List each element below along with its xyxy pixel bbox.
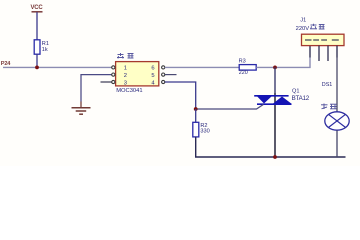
label deng-pao (bulb) [321, 104, 337, 110]
svg-text:220V: 220V [296, 26, 310, 32]
svg-text:MOC3041: MOC3041 [116, 88, 142, 94]
junction dot MT2 node [273, 66, 277, 70]
wire pin4 to gate node [165, 82, 196, 109]
junction dot gate node [194, 107, 198, 111]
wire MT2 vertical [274, 67, 276, 93]
connector J1 body [300, 18, 344, 46]
wire gate [196, 104, 264, 109]
wire VCC to R1 [36, 12, 38, 40]
svg-text:2: 2 [124, 73, 127, 79]
J1 pin 3 stub [327, 46, 329, 61]
svg-text:1: 1 [124, 66, 127, 72]
wire gate node to R2 [195, 109, 197, 122]
pin circles U1 [112, 66, 165, 84]
svg-text:DS1: DS1 [322, 82, 333, 88]
svg-text:220: 220 [239, 70, 248, 76]
wire lamp to bottom rail [336, 130, 338, 157]
resistor R2 [193, 122, 210, 137]
wire J1 pin4 to lamp [336, 46, 338, 58]
svg-text:5: 5 [151, 73, 154, 79]
svg-text:3: 3 [124, 80, 127, 86]
triac Q1 [254, 89, 310, 105]
junction dot bottom rail [273, 155, 277, 159]
svg-text:R1: R1 [42, 41, 49, 47]
svg-text:1k: 1k [42, 47, 48, 53]
svg-text:J1: J1 [300, 18, 306, 24]
wire P24 to pin1 [3, 66, 112, 68]
lamp DS1 [322, 82, 349, 130]
J1 pin 2 stub [318, 46, 320, 61]
wire R2 to bottom rail [196, 137, 346, 157]
svg-text:P24: P24 [1, 61, 11, 67]
wire pin3 stub [101, 81, 112, 83]
wire pin5 stub [165, 74, 177, 76]
resistor R1 [34, 40, 49, 54]
label 220V AC [296, 24, 325, 32]
ground [72, 108, 91, 115]
power VCC [31, 5, 44, 12]
svg-text:R3: R3 [239, 58, 246, 64]
svg-text:BTA12: BTA12 [292, 95, 310, 102]
wire R1 to node [36, 54, 38, 67]
wire pin6 to R3 [165, 66, 239, 68]
svg-text:VCC: VCC [31, 5, 44, 11]
optocoupler U1 MOC3041 body [116, 62, 159, 87]
label guang-ou (optocoupler) above U1 [117, 53, 134, 59]
wire R3 to J1 [256, 58, 310, 68]
svg-text:6: 6 [151, 66, 154, 72]
svg-text:330: 330 [200, 128, 209, 134]
svg-text:Q1: Q1 [292, 89, 299, 95]
junction dot node P24/R1 [35, 66, 39, 70]
wire pin2 to ground [81, 75, 112, 102]
resistor R3 [239, 58, 257, 76]
